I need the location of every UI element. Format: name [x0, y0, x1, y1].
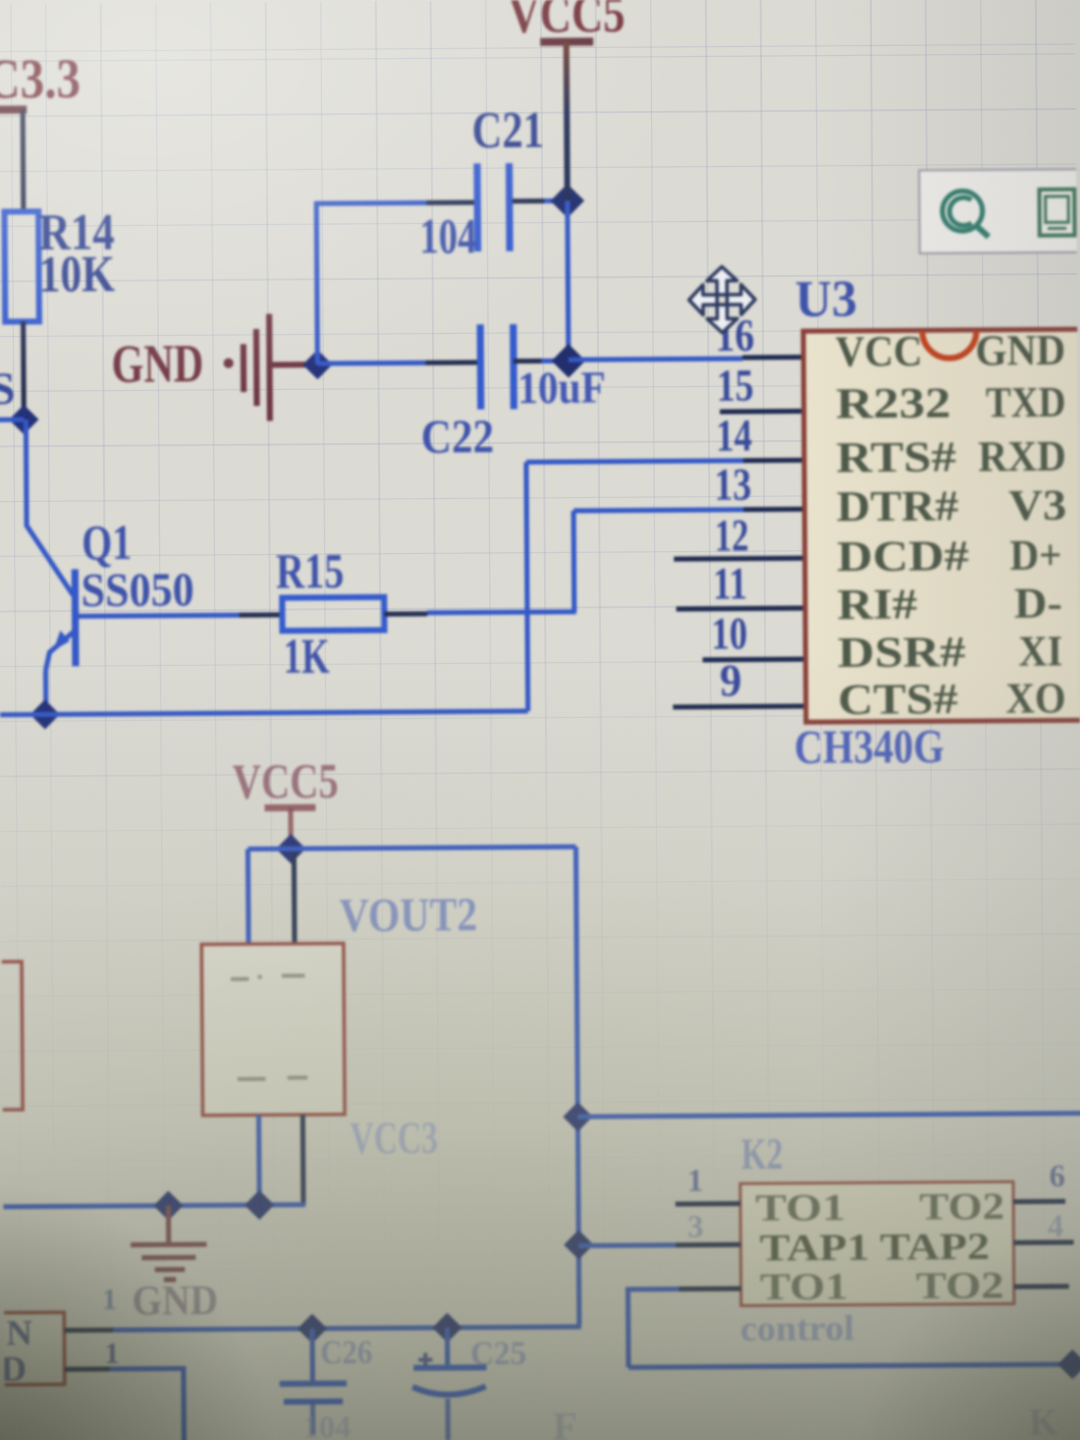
resistor R15 — [282, 597, 384, 631]
capacitor C25 plate top — [414, 1364, 487, 1371]
transistor Q1 — [45, 569, 76, 670]
svg-text:104: 104 — [419, 207, 476, 263]
capacitor C25 plus sign — [418, 1353, 432, 1367]
wire stub left of node S — [0, 417, 24, 422]
junction control right — [1058, 1349, 1080, 1379]
pin stub bottom-left component pin1 — [64, 1327, 113, 1332]
resistor R14 — [4, 211, 39, 321]
capacitor C25 curved plate — [413, 1386, 486, 1395]
svg-text:VCC5: VCC5 — [508, 0, 625, 44]
wire K2 bottom-left pin down — [628, 1289, 680, 1367]
svg-text:VCC3: VCC3 — [350, 1112, 438, 1164]
regulator faint pin marks top — [231, 976, 305, 980]
junction rail2 regulator — [245, 1190, 275, 1220]
toolbar icon magnifier/copyright — [942, 191, 988, 237]
svg-text:DCD#: DCD# — [837, 533, 969, 581]
wire VCC5 node left to regulator — [248, 846, 291, 851]
junction VOUT2 lower — [564, 1230, 594, 1260]
component bottom-left (cut) — [0, 1312, 65, 1385]
capacitor C26 lead top — [310, 1329, 315, 1382]
svg-text:XI: XI — [1018, 628, 1062, 675]
svg-text:C26: C26 — [320, 1334, 372, 1371]
svg-text:VCC: VCC — [835, 328, 922, 376]
wire Q1 emitter to ground rail — [43, 670, 48, 705]
svg-text:Q1: Q1 — [82, 514, 132, 570]
svg-text:GND: GND — [975, 327, 1065, 375]
svg-text:U3: U3 — [795, 271, 857, 328]
wire to K2 middle pin — [579, 1243, 679, 1249]
junction C25 — [432, 1313, 462, 1343]
pin wire C22 right — [513, 358, 541, 363]
wire regulator left pin top — [245, 849, 251, 944]
toolbar icon phone — [1039, 189, 1074, 235]
junction rail2 gnd — [154, 1191, 184, 1221]
wire regulator left pin bottom — [256, 1115, 262, 1205]
svg-text:C21: C21 — [472, 102, 544, 160]
svg-text:R232: R232 — [836, 380, 951, 428]
junction C22/VCC net — [552, 344, 586, 378]
wire VCC5 down — [566, 42, 567, 201]
pin 11 stub — [676, 606, 805, 612]
bottom rail wire — [113, 1327, 581, 1330]
svg-text:VOUT2: VOUT2 — [339, 888, 477, 942]
ground symbol dot — [223, 358, 233, 368]
pin wire C22 left — [426, 360, 479, 365]
pin 10 stub — [703, 657, 806, 663]
svg-text:C22: C22 — [421, 410, 494, 464]
wire C21 to VCC5 node — [544, 198, 567, 203]
svg-text:TO2: TO2 — [916, 1265, 1004, 1308]
capacitor C21 plates — [474, 163, 482, 251]
pin wire R15 right — [384, 611, 427, 616]
IC U3 notch arc — [922, 331, 976, 358]
svg-text:C25: C25 — [470, 1335, 526, 1372]
svg-text:V3: V3 — [1008, 482, 1066, 529]
junction VCC5 lower — [276, 834, 306, 864]
svg-text:10: 10 — [711, 608, 747, 659]
wire junction to U3 pin16 — [568, 359, 742, 360]
pin wire R15 left — [239, 612, 282, 617]
wire VOUT2 to right edge — [578, 1113, 1080, 1117]
junction emitter rail — [30, 700, 60, 730]
K2 right pin stubs — [1013, 1199, 1065, 1204]
junction GND node — [303, 350, 333, 380]
svg-text:104: 104 — [303, 1408, 351, 1440]
wire VCC5 node to C22 node — [567, 201, 568, 362]
svg-text:F: F — [553, 1404, 578, 1440]
svg-text:14: 14 — [716, 410, 752, 461]
svg-text:4: 4 — [1047, 1207, 1063, 1243]
svg-text:K2: K2 — [741, 1129, 783, 1178]
toolbar panel — [919, 169, 1080, 253]
svg-text:11: 11 — [713, 558, 747, 609]
wire U3 pin13 — [574, 510, 744, 511]
power bar VCC5 — [540, 38, 593, 46]
capacitor C25 lead bottom — [445, 1399, 450, 1440]
svg-text:RTS#: RTS# — [836, 434, 956, 482]
ground symbol bars — [243, 314, 314, 421]
svg-text:CTS#: CTS# — [838, 676, 958, 724]
svg-text:1: 1 — [687, 1162, 703, 1198]
pin wire C21 left — [426, 200, 475, 205]
wire regulator right pin top — [291, 852, 297, 944]
svg-text:9: 9 — [720, 655, 742, 706]
ground symbol 2 stub — [166, 1206, 171, 1244]
svg-text:C3.3: C3.3 — [0, 48, 81, 111]
capacitor C25 lead top — [445, 1328, 450, 1367]
svg-text:TO1: TO1 — [760, 1266, 848, 1309]
capacitor C26 plates — [280, 1380, 347, 1386]
svg-text:DSR#: DSR# — [837, 629, 965, 677]
pin 12 stub — [674, 556, 805, 562]
svg-text:R15: R15 — [276, 542, 344, 598]
svg-text:TXD: TXD — [986, 379, 1066, 427]
wire R14 to node S — [21, 322, 27, 408]
component left edge mid (cut) — [0, 962, 23, 1110]
svg-text:D: D — [0, 1349, 26, 1389]
svg-text:XO: XO — [1006, 675, 1066, 722]
wire pin14 vertical to rail — [526, 462, 528, 711]
pin 14 stub — [743, 458, 804, 463]
pin 13 stub — [744, 507, 805, 512]
IC U3 body — [803, 329, 1080, 722]
svg-text:10K: 10K — [39, 246, 116, 304]
junction node S — [9, 405, 39, 435]
power bar VCC5 lower — [265, 804, 316, 811]
svg-text:RXD: RXD — [978, 433, 1066, 481]
svg-text:1K: 1K — [283, 627, 329, 683]
wire R15 to verticals — [427, 612, 576, 613]
wire VOUT2 vertical — [576, 847, 579, 1325]
power bar VCC3.3 — [0, 106, 27, 114]
svg-text:N: N — [6, 1313, 32, 1353]
ground rail 2 — [3, 1205, 305, 1207]
wire node S to Q1 collector — [26, 419, 73, 595]
svg-text:DTR#: DTR# — [836, 483, 958, 531]
svg-text:1: 1 — [102, 1283, 117, 1316]
wire U3 pin14 — [526, 461, 743, 463]
svg-text:12: 12 — [715, 510, 749, 561]
wire Q1 base to R15 — [76, 615, 239, 616]
svg-text:13: 13 — [714, 459, 751, 510]
svg-text:K: K — [1029, 1401, 1059, 1440]
svg-text:SS050: SS050 — [81, 563, 194, 617]
pin 9 stub — [673, 704, 806, 710]
wire pin13 vertical — [571, 511, 577, 612]
capacitor C26 lead bottom — [310, 1402, 315, 1435]
regulator U? body — [202, 943, 345, 1115]
svg-text:control: control — [740, 1308, 854, 1349]
svg-text:TO1: TO1 — [755, 1187, 845, 1230]
pin 16 stub — [742, 355, 803, 360]
pin 15 stub — [720, 409, 804, 415]
wire K2 control to right edge — [629, 1364, 1080, 1367]
wire VCC5 lower stub — [288, 808, 293, 842]
junction C26 — [297, 1314, 327, 1344]
svg-text:D-: D- — [1014, 580, 1062, 627]
svg-text:6: 6 — [1049, 1157, 1065, 1193]
svg-text:RI#: RI# — [837, 581, 917, 629]
svg-text:TO2: TO2 — [919, 1186, 1004, 1229]
junction VOUT2 upper — [563, 1102, 593, 1132]
wire C22 to junction — [541, 358, 568, 363]
svg-text:GND: GND — [111, 333, 203, 394]
ground symbol 2 bars — [131, 1244, 207, 1280]
pin stub bottom-left component pin2 — [65, 1367, 110, 1372]
regulator faint pin marks bottom — [237, 1078, 307, 1079]
svg-text:3: 3 — [687, 1208, 703, 1244]
wire C21 top left — [314, 200, 426, 206]
wire regulator right pin bottom — [300, 1115, 306, 1205]
move cursor overlay — [689, 266, 755, 332]
capacitor C22 plates — [477, 324, 485, 409]
wire VCC5 node to VOUT2 vertical — [291, 847, 576, 849]
wire GND node to C22 — [318, 360, 426, 366]
wire C21 loop left vertical — [316, 202, 317, 365]
relay K2 body — [740, 1182, 1014, 1306]
ground rail wire — [0, 711, 528, 715]
wire VCC3.3 to R14 — [20, 110, 26, 212]
svg-text:D+: D+ — [1010, 532, 1062, 579]
svg-text:VCC5: VCC5 — [232, 752, 338, 809]
svg-text:TAP1 TAP2: TAP1 TAP2 — [760, 1226, 990, 1270]
K2 left pin stubs — [675, 1201, 740, 1206]
pin wire C21 right — [512, 198, 544, 203]
svg-text:15: 15 — [716, 360, 753, 411]
svg-text:CH340G: CH340G — [794, 720, 944, 774]
svg-text:GND: GND — [132, 1278, 218, 1325]
svg-text:S: S — [0, 363, 15, 414]
wire pin2 down to bottom edge — [110, 1369, 185, 1440]
junction C21/VCC5 — [550, 184, 584, 218]
svg-text:1: 1 — [104, 1337, 119, 1370]
